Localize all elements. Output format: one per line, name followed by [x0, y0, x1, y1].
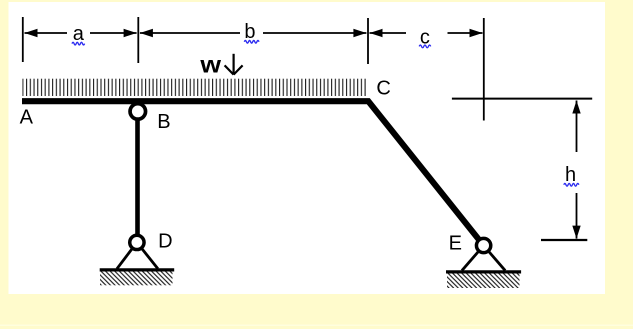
dimension tick at C (x=368) [367, 18, 369, 64]
svg-text:B: B [157, 111, 170, 133]
ground line at D [100, 268, 175, 271]
dimension tick at A (x=22.8) [22, 17, 24, 62]
arrowhead a-right [124, 29, 137, 37]
dimension line c: right segment [448, 32, 483, 34]
h dimension line upper segment [576, 101, 578, 153]
arrowhead c-right [470, 29, 483, 37]
squiggle under b [244, 40, 259, 43]
horizontal reference line at beam level (right side) [452, 98, 592, 100]
beam A-C and diagonal member C-E (mitered corner at C) [22, 101, 484, 245]
pin circle at D [130, 235, 144, 249]
ground hatch at E [447, 274, 520, 289]
support triangle legs at D [117, 242, 137, 268]
ground hatch at D [100, 272, 173, 286]
svg-text:A: A [20, 107, 34, 129]
down arrow next to w [225, 54, 243, 75]
arrowhead c-left [370, 29, 383, 37]
arrowhead b-right [353, 29, 366, 37]
svg-text:C: C [376, 78, 390, 100]
dimension line a: left segment [25, 32, 68, 34]
dimension line b: right segment [263, 32, 366, 34]
arrowhead b-left [140, 29, 153, 37]
arrowhead h-down [572, 226, 580, 239]
dimension line b: left segment [140, 32, 240, 34]
support triangle legs at E [462, 246, 484, 271]
squiggle under c [419, 45, 430, 48]
squiggle under a [72, 42, 85, 45]
svg-text:w: w [199, 52, 222, 78]
dimension tick at B (x=138.3) [137, 17, 139, 63]
pin circle at E [476, 238, 490, 252]
distributed load hatching over beam [22, 79, 366, 96]
pin circle at B [130, 104, 146, 120]
arrowhead h-up [572, 101, 580, 114]
long vertical reference line (x=483.8) [483, 18, 485, 121]
squiggle under h [564, 183, 579, 186]
h dimension line lower segment [576, 193, 578, 239]
dimension line c: left segment [370, 32, 407, 34]
arrowhead a-left [25, 29, 38, 37]
svg-text:a: a [73, 23, 85, 45]
bottom tick for h [541, 239, 587, 241]
svg-text:h: h [565, 164, 576, 186]
faint divider line in bottom yellow margin [0, 325, 633, 326]
svg-text:E: E [449, 233, 462, 255]
svg-text:D: D [158, 231, 172, 253]
vertical member B-D [135, 108, 140, 242]
dimension line a: right segment [90, 32, 137, 34]
ground line at E [446, 270, 521, 273]
